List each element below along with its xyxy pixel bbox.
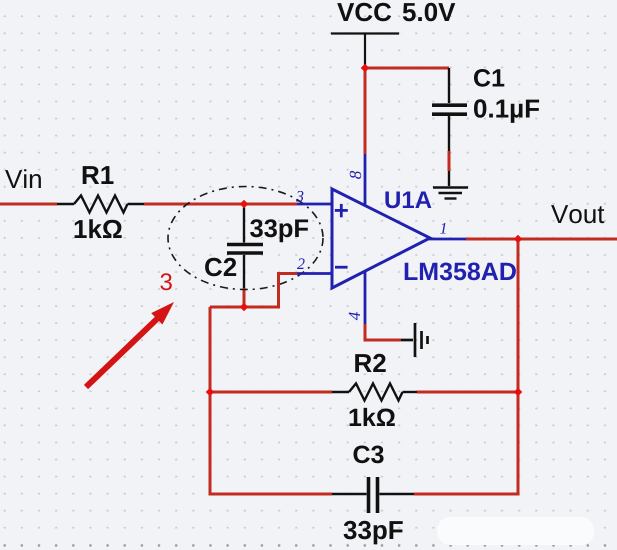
wire R2 left (210, 391, 332, 394)
wire VCC node to C1 (365, 67, 449, 70)
ground under C1 (433, 171, 468, 199)
node R2 left junction (206, 388, 215, 397)
pin 8 stub (364, 154, 367, 206)
pin 4 number (349, 312, 360, 320)
label C1 (474, 69, 504, 87)
pin 1 number (440, 223, 446, 234)
watermark blank patch (437, 517, 594, 545)
node R2 right junction (514, 388, 523, 397)
label VCC (337, 3, 391, 22)
value 0.1uF (474, 99, 539, 123)
value 33pF C3 (344, 521, 403, 545)
label Vout (551, 205, 604, 223)
value 5.0V (403, 3, 456, 22)
highlight ellipse (168, 187, 323, 290)
wire right feedback rail (414, 239, 518, 494)
capacitor C3 (332, 477, 414, 513)
label U1A (385, 192, 431, 209)
pin 2 number (297, 258, 305, 269)
wire VCC node to pin 8 (364, 66, 367, 154)
power VCC rail (331, 34, 399, 67)
wire left feedback rail (210, 307, 332, 494)
label Vin (5, 169, 41, 188)
resistor R1 (57, 196, 144, 213)
node C2 bottom junction (240, 303, 249, 312)
wire Vin to R1 (0, 203, 57, 206)
bottom edge dot row (3, 544, 606, 547)
node Vout junction (514, 235, 523, 244)
wire pin 2 staircase (210, 274, 297, 308)
label C2 (205, 258, 236, 277)
ground at pin 4 sideways (401, 323, 428, 357)
wire R2 right (417, 391, 518, 394)
node VCC junction (361, 64, 370, 73)
resistor R2 (332, 384, 417, 401)
value 33pF C2 (250, 219, 308, 242)
pin 1 stub (429, 238, 466, 241)
pin 3 number (296, 191, 303, 202)
pin 3 stub (297, 203, 333, 206)
value 1kOhm R2 (350, 408, 395, 426)
wire pin 4 to ground (365, 324, 401, 340)
label R2 (355, 354, 386, 372)
wire R1 to op-amp pin 3 (144, 203, 297, 206)
pin 4 stub (364, 271, 367, 324)
label LM358AD (405, 263, 516, 281)
node C2 top junction (240, 200, 249, 209)
plus marker (335, 204, 348, 217)
wire C1 to ground red segment (448, 151, 451, 171)
pin 8 number (350, 171, 362, 179)
pin 2 stub (297, 272, 333, 275)
annotation arrow (86, 317, 159, 387)
minus marker (335, 266, 348, 269)
annotation number 3 (160, 273, 171, 290)
wire output Vout (466, 238, 617, 241)
capacitor C1 (432, 68, 467, 151)
value 1kOhm R1 (75, 219, 122, 238)
op-amp U1A triangle (332, 189, 430, 288)
wire C2 bottom red (243, 288, 246, 307)
label R1 (83, 166, 114, 184)
capacitor C2 (227, 208, 263, 289)
label C3 (354, 446, 384, 464)
